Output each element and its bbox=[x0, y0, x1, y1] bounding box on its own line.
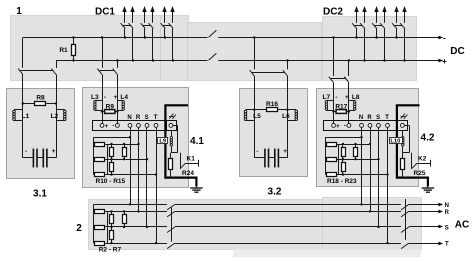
battery 3.2 disconnect pole A bbox=[250, 70, 255, 76]
wire DC+ drop to charger 4.1 bbox=[117, 61, 119, 68]
battery module 3.1 box bbox=[7, 89, 75, 179]
wire DC- drop to charger 4.1 bbox=[102, 38, 104, 68]
wire DC2 pole 6 to DC+ bus bbox=[404, 29, 406, 61]
relay contact K1 bbox=[180, 153, 182, 169]
wire DC2 pole 1 to DC- bus bbox=[356, 29, 358, 38]
svg-text:R18 - R23: R18 - R23 bbox=[327, 178, 357, 185]
inductor L7 bbox=[326, 100, 333, 102]
AC switch 2 pole R bbox=[401, 211, 409, 217]
svg-text:K1: K1 bbox=[187, 156, 196, 163]
AC switch 1 pole N bbox=[167, 204, 175, 210]
inductor L10 bbox=[402, 131, 404, 136]
svg-text:1: 1 bbox=[16, 6, 22, 17]
DC2 feeder arrow 6 bbox=[404, 10, 406, 23]
DC2 feeder arrow 1 bbox=[356, 10, 358, 23]
DC1 breaker coupling bar bbox=[123, 25, 131, 27]
label L9 box bbox=[158, 138, 168, 144]
svg-text:N: N bbox=[359, 115, 363, 121]
wire charger 4.2 minus conductor bbox=[333, 83, 335, 124]
wire charger 4.1 plus conductor bbox=[117, 75, 119, 124]
wire charger 4.1 minus conductor bbox=[102, 75, 104, 124]
R10 - R15 inner rail bbox=[107, 144, 109, 175]
AC output arrow T bbox=[409, 243, 440, 245]
wire R from charger 4.2 to AC bus bbox=[370, 128, 372, 212]
inductor L9 bbox=[171, 131, 173, 136]
DC distribution zone (top band right DC2) bbox=[323, 17, 417, 81]
PE symbol above terminal bbox=[401, 114, 405, 119]
terminal - of charger 4.2 bbox=[347, 124, 351, 128]
DC2 breaker pole 6 bbox=[400, 23, 405, 28]
AC switch 1 pole S bbox=[167, 227, 175, 233]
DC distribution zone (top band, DC1 breaker part) bbox=[161, 16, 189, 81]
svg-text:R: R bbox=[136, 115, 141, 121]
charger 4.2 terminal strip bbox=[324, 121, 408, 131]
svg-text:R9: R9 bbox=[106, 104, 115, 111]
charger 4.1 disconnect pole A bbox=[97, 69, 102, 75]
charger 4.1 disconnect pole B bbox=[113, 69, 118, 75]
wire DC2 pole 5 to DC- bus bbox=[396, 29, 398, 38]
resistor R25 bbox=[402, 153, 404, 159]
wire DC- bus right section bbox=[218, 37, 438, 39]
svg-text:AC: AC bbox=[455, 219, 469, 230]
svg-text:L5: L5 bbox=[253, 113, 261, 120]
battery 3.2 disconnect pole B bbox=[283, 70, 288, 76]
terminal N bbox=[128, 124, 132, 128]
R18 - R23 row1 rail bbox=[337, 144, 370, 146]
AC switch 2 pole S bbox=[401, 227, 409, 233]
R2 - R7 inner rail bbox=[107, 211, 109, 243]
svg-text:R17: R17 bbox=[335, 104, 347, 111]
DC distribution zone (top band middle) bbox=[188, 23, 322, 81]
R18 - R23 row3 rail bbox=[337, 174, 388, 176]
battery module 3.2 box bbox=[240, 89, 308, 177]
DC1 feeder arrow 5 bbox=[164, 10, 166, 23]
svg-text:R2 - R7: R2 - R7 bbox=[99, 246, 122, 253]
svg-text:R25: R25 bbox=[414, 170, 426, 177]
resistor R2 - R7 row3 horizontal bbox=[95, 242, 105, 246]
AC switch 2 pole T bbox=[401, 243, 409, 249]
svg-text:S: S bbox=[376, 115, 380, 121]
AC distribution zone (bottom band right) bbox=[323, 198, 422, 250]
svg-text:+: + bbox=[52, 148, 56, 155]
svg-text:R10 - R15: R10 - R15 bbox=[96, 178, 126, 185]
wire DC1 pole 5 to DC- bus bbox=[164, 29, 166, 38]
terminal - of charger 4.1 bbox=[116, 124, 120, 128]
resistor R2 - R7 row1 horizontal bbox=[95, 210, 105, 214]
wire S from charger 4.2 to AC bus bbox=[378, 128, 380, 228]
wire battery 3.1 left conductor bbox=[22, 75, 24, 158]
terminal R bbox=[368, 124, 372, 128]
resistor R10 - R15 vertical 1 bbox=[111, 144, 113, 147]
DC2 breaker pole 5 bbox=[392, 23, 397, 28]
svg-text:+: + bbox=[336, 124, 340, 130]
wire DC- drop to battery 3.1 bbox=[22, 38, 24, 68]
charger module 4.1 box bbox=[83, 88, 189, 188]
wire DC- drop to charger 4.2 bbox=[333, 38, 335, 77]
wire PE terminal to choke bbox=[405, 125, 410, 127]
svg-text:2: 2 bbox=[76, 223, 82, 234]
wire battery 3.2 right conductor bbox=[287, 76, 289, 158]
svg-text:N: N bbox=[127, 115, 131, 121]
wire charger 4.2 plus conductor bbox=[348, 83, 350, 124]
DC- output arrow bbox=[439, 37, 440, 39]
AC switch 1 pole T bbox=[167, 243, 175, 249]
wire DC1 pole 4 to DC+ bus bbox=[152, 29, 154, 61]
svg-text:4.2: 4.2 bbox=[421, 132, 435, 143]
battery 3.1 disconnect pole A bbox=[18, 69, 23, 75]
svg-text:-: - bbox=[25, 148, 27, 155]
charger 4.2 PE terminal block bbox=[398, 121, 408, 131]
svg-text:+: + bbox=[442, 57, 447, 66]
svg-text:T: T bbox=[154, 115, 158, 121]
inductor L1 bbox=[14, 109, 23, 111]
wire N from charger 4.1 to AC bus bbox=[130, 128, 132, 205]
svg-text:R: R bbox=[367, 115, 372, 121]
R10 - R15 row1 rail bbox=[105, 144, 138, 146]
DC bus-tie switch pole on DC- bus bbox=[209, 30, 217, 37]
resistor R1 bbox=[73, 38, 75, 45]
wire battery 3.1 right conductor bbox=[56, 75, 58, 158]
R18 - R23 inner rail bbox=[338, 144, 340, 175]
DC2 breaker coupling bar bbox=[354, 25, 362, 27]
AC switch 1 coupling bar bbox=[171, 208, 173, 242]
DC bus-tie switch pole on DC+ bus bbox=[209, 53, 217, 60]
label L10 box bbox=[390, 138, 403, 144]
ground symbol of charger 4.2 bbox=[427, 186, 429, 188]
terminal T bbox=[386, 124, 390, 128]
inductor L4 bbox=[117, 100, 123, 102]
R10 - R15 row3 rail bbox=[105, 174, 156, 176]
svg-text:S: S bbox=[445, 225, 449, 231]
resistor R24 bbox=[170, 153, 172, 159]
svg-text:L2: L2 bbox=[51, 113, 59, 120]
DC2 feeder arrow 3 bbox=[376, 10, 378, 23]
wire DC1 pole 3 to DC- bus bbox=[144, 29, 146, 38]
inductor L8 bbox=[349, 100, 355, 102]
AC output arrow R bbox=[409, 211, 440, 213]
DC1 breaker pole 1 bbox=[121, 23, 126, 28]
charger 4.1 terminal strip bbox=[93, 121, 177, 131]
R18 - R23 network top link bbox=[325, 137, 361, 139]
svg-text:+: + bbox=[114, 94, 118, 101]
svg-text:-: - bbox=[335, 94, 337, 101]
ground symbol of charger 4.1 bbox=[196, 186, 198, 188]
charger 4.2 disconnect coupling bar bbox=[331, 78, 346, 80]
charger 4.2 bold output path bbox=[397, 105, 428, 186]
DC2 breaker coupling bar bbox=[394, 25, 402, 27]
DC distribution zone (top band left) bbox=[11, 16, 161, 81]
AC output arrow N bbox=[409, 204, 440, 206]
svg-text:T: T bbox=[445, 242, 449, 248]
wire DC+ drop to charger 4.2 bbox=[348, 61, 350, 77]
DC1 feeder arrow 4 bbox=[152, 10, 154, 23]
DC1 breaker pole 2 bbox=[129, 23, 134, 28]
wire AC line S bbox=[105, 226, 167, 228]
resistor R10 - R15 row1 horizontal bbox=[95, 143, 105, 147]
wire DC+ bus right section bbox=[218, 60, 438, 62]
svg-text:DC1: DC1 bbox=[95, 6, 115, 17]
svg-text:+: + bbox=[283, 148, 287, 155]
resistor R18 - R23 row3 horizontal bbox=[327, 173, 337, 177]
svg-text:N: N bbox=[445, 203, 449, 209]
DC1 breaker coupling bar bbox=[143, 25, 151, 27]
terminal + of charger 4.1 bbox=[100, 124, 104, 128]
svg-text:T: T bbox=[385, 115, 389, 121]
PE symbol above terminal bbox=[169, 114, 173, 119]
svg-text:-: - bbox=[112, 124, 114, 130]
inductor L2 bbox=[56, 109, 65, 111]
DC1 feeder arrow 3 bbox=[144, 10, 146, 23]
DC1 breaker pole 4 bbox=[149, 23, 154, 28]
resistor R18 - R23 vertical 3 bbox=[342, 159, 344, 162]
wire AC line R bbox=[105, 211, 167, 213]
DC1 breaker pole 3 bbox=[141, 23, 146, 28]
terminal PE of charger 4.2 bbox=[401, 124, 405, 128]
resistor R17 bbox=[334, 111, 337, 113]
inductor L6 bbox=[288, 109, 297, 111]
AC distribution zone (bottom band left) bbox=[89, 200, 323, 250]
wire battery 3.2 left conductor bbox=[254, 76, 256, 158]
DC1 breaker coupling bar bbox=[163, 25, 171, 27]
R10 - R15 row2 rail bbox=[105, 159, 147, 161]
wire DC+ drop to battery 3.2 bbox=[287, 61, 289, 70]
svg-text:4.1: 4.1 bbox=[190, 136, 204, 147]
svg-text:R: R bbox=[445, 210, 450, 216]
svg-text:R16: R16 bbox=[266, 101, 278, 108]
wire T from charger 4.1 to AC bus bbox=[156, 128, 158, 244]
svg-text:+: + bbox=[345, 94, 349, 101]
terminal T bbox=[154, 124, 158, 128]
wire DC+ drop to battery 3.1 bbox=[56, 61, 58, 68]
svg-text:L6: L6 bbox=[282, 113, 290, 120]
DC2 breaker pole 3 bbox=[372, 23, 377, 28]
R18 - R23 row2 rail bbox=[337, 159, 379, 161]
wire DC- drop to battery 3.2 bbox=[254, 38, 256, 70]
inductor L3 bbox=[95, 100, 102, 102]
charger 4.1 bold output path bbox=[165, 105, 196, 186]
terminal S bbox=[377, 124, 381, 128]
wire T from charger 4.2 to AC bus bbox=[387, 128, 389, 244]
R2 - R7 network left rail bbox=[93, 204, 95, 243]
charger 4.2 disconnect pole B bbox=[344, 77, 349, 83]
wire DC+ bus left section bbox=[56, 60, 208, 62]
charger 4.1 PE terminal block bbox=[167, 121, 177, 131]
terminal + of charger 4.2 bbox=[332, 124, 336, 128]
DC+ output arrow bbox=[439, 60, 440, 62]
svg-text:R1: R1 bbox=[59, 47, 68, 54]
battery battery 3.2 bbox=[254, 157, 265, 159]
R10 - R15 network top link bbox=[94, 137, 130, 139]
wire DC1 pole 2 to DC+ bus bbox=[132, 29, 134, 61]
terminal S bbox=[145, 124, 149, 128]
DC1 feeder arrow 2 bbox=[132, 10, 134, 23]
wire PE terminal to choke bbox=[173, 125, 178, 127]
resistor R18 - R23 vertical 1 bbox=[342, 144, 344, 147]
R10 - R15 network left rail bbox=[93, 137, 95, 174]
battery 3.2 disconnect coupling bar bbox=[252, 72, 284, 74]
resistor R9 bbox=[102, 111, 105, 113]
DC2 feeder arrow 2 bbox=[364, 10, 366, 23]
svg-text:DC: DC bbox=[450, 46, 464, 57]
svg-text:L9: L9 bbox=[159, 139, 167, 145]
DC1 breaker pole 6 bbox=[169, 23, 174, 28]
wire AC line N bbox=[94, 204, 167, 206]
charger module 4.2 box bbox=[317, 89, 419, 187]
AC switch 2 pole N bbox=[401, 204, 409, 210]
DC2 breaker coupling bar bbox=[374, 25, 382, 27]
wire DC1 pole 1 to DC- bus bbox=[124, 29, 126, 38]
svg-text:+: + bbox=[105, 124, 109, 130]
charger 4.2 disconnect pole A bbox=[329, 77, 334, 83]
resistor R10 - R15 vertical 3 bbox=[111, 159, 113, 162]
resistor R2 - R7 vertical 3 bbox=[111, 227, 113, 230]
AC zone lower shadow strip bbox=[233, 249, 421, 257]
relay contact K2 bbox=[411, 153, 413, 169]
DC1 breaker pole 5 bbox=[161, 23, 166, 28]
resistor R8 bbox=[23, 103, 35, 105]
wire DC2 pole 3 to DC- bus bbox=[376, 29, 378, 38]
wire DC2 pole 4 to DC+ bus bbox=[384, 29, 386, 61]
svg-text:-: - bbox=[443, 34, 446, 43]
svg-text:3.1: 3.1 bbox=[33, 189, 47, 200]
wire DC2 pole 2 to DC+ bus bbox=[364, 29, 366, 61]
wire DC1 pole 6 to DC+ bus bbox=[172, 29, 174, 61]
svg-text:L10: L10 bbox=[390, 139, 400, 145]
terminal PE of charger 4.1 bbox=[169, 124, 173, 128]
AC switch 1 pole R bbox=[167, 211, 175, 217]
svg-text:R8: R8 bbox=[36, 95, 45, 102]
svg-text:-: - bbox=[344, 124, 346, 130]
svg-text:L1: L1 bbox=[22, 113, 30, 120]
resistor R18 - R23 row2 horizontal bbox=[327, 158, 337, 162]
wire R from charger 4.1 to AC bus bbox=[138, 128, 140, 212]
inductor L5 bbox=[246, 109, 255, 111]
wire N from charger 4.2 to AC bus bbox=[361, 128, 363, 205]
resistor R10 - R15 row2 horizontal bbox=[95, 158, 105, 162]
battery 3.1 disconnect pole B bbox=[51, 69, 56, 75]
battery battery 3.1 bbox=[23, 157, 34, 159]
resistor R2 - R7 row2 horizontal bbox=[95, 226, 105, 230]
svg-text:K2: K2 bbox=[418, 156, 427, 163]
svg-text:DC2: DC2 bbox=[323, 6, 343, 17]
DC1 feeder arrow 6 bbox=[172, 10, 174, 23]
svg-text:-: - bbox=[256, 148, 258, 155]
svg-text:R24: R24 bbox=[182, 170, 194, 177]
AC switch 2 coupling bar bbox=[405, 199, 407, 240]
DC2 feeder arrow 4 bbox=[384, 10, 386, 23]
resistor R16 bbox=[254, 109, 266, 111]
terminal N bbox=[360, 124, 364, 128]
R18 - R23 network left rail bbox=[325, 137, 327, 174]
battery 3.1 disconnect coupling bar bbox=[20, 70, 53, 72]
resistor R2 - R7 vertical 2 bbox=[124, 211, 126, 215]
DC2 breaker pole 2 bbox=[360, 23, 365, 28]
wire AC line T bbox=[105, 243, 167, 245]
svg-text:-: - bbox=[104, 94, 106, 101]
terminal R bbox=[137, 124, 141, 128]
DC2 feeder arrow 5 bbox=[396, 10, 398, 23]
resistor R10 - R15 row3 horizontal bbox=[95, 173, 105, 177]
resistor R18 - R23 vertical 2 bbox=[355, 144, 357, 147]
svg-text:S: S bbox=[145, 115, 149, 121]
resistor R10 - R15 vertical 2 bbox=[124, 144, 126, 147]
wire DC- bus left section bbox=[23, 37, 208, 39]
resistor R2 - R7 vertical 1 bbox=[111, 211, 113, 215]
DC1 feeder arrow 1 bbox=[124, 10, 126, 23]
DC2 breaker pole 4 bbox=[380, 23, 385, 28]
svg-text:3.2: 3.2 bbox=[268, 186, 282, 197]
wire S from charger 4.1 to AC bus bbox=[146, 128, 148, 228]
charger 4.1 disconnect coupling bar bbox=[100, 70, 115, 72]
AC output arrow S bbox=[409, 226, 440, 228]
resistor R18 - R23 row1 horizontal bbox=[327, 143, 337, 147]
DC2 breaker pole 1 bbox=[352, 23, 357, 28]
